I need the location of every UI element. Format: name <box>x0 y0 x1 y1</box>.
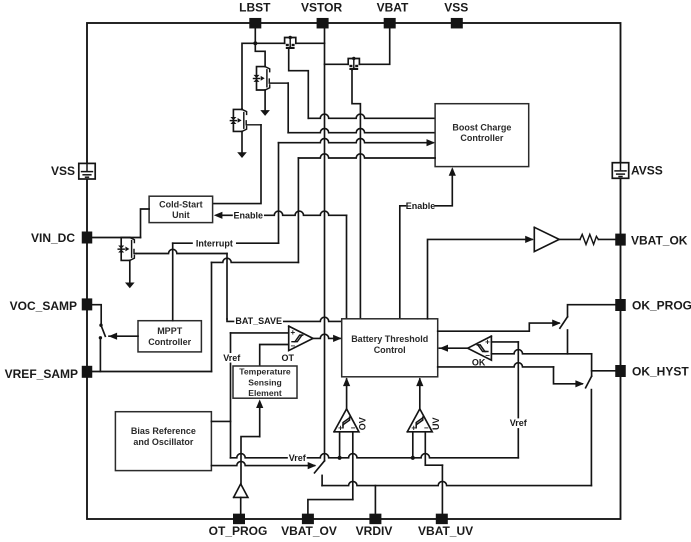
wire UV output to BTC <box>419 379 421 409</box>
wire M2 gate to BCC (input 2) <box>287 83 289 133</box>
svg-text:and Oscillator: and Oscillator <box>133 437 194 447</box>
op-amp U8 OT_PROG buffer (open triangle) <box>234 484 248 498</box>
wire OV + input <box>339 432 341 458</box>
pin OK_PROG <box>615 299 626 311</box>
wire VOC_SAMP to switch <box>92 305 101 324</box>
wire OK_HYST pin <box>592 370 616 372</box>
wire VRDIV pin <box>374 486 376 514</box>
svg-text:Controller: Controller <box>148 337 191 347</box>
svg-text:Control: Control <box>374 345 406 355</box>
pin VSS (top) <box>451 18 463 29</box>
wire M2 source to ground <box>264 90 266 111</box>
svg-text:Sensing: Sensing <box>248 377 281 387</box>
wire Enable (BTC to Cold-Start) <box>222 214 232 216</box>
svg-text:VIN_DC: VIN_DC <box>31 231 75 245</box>
pin VRDIV <box>369 514 381 525</box>
wire OK_PROG pin to switch <box>568 305 616 317</box>
arrowhead into Temperature block <box>256 399 263 408</box>
pin OT_PROG <box>233 514 245 525</box>
svg-text:Enable: Enable <box>234 210 264 220</box>
svg-text:Vref: Vref <box>223 353 241 363</box>
svg-text:VBAT: VBAT <box>377 1 409 15</box>
wire M3 gate to Cold-Start Unit <box>213 125 261 204</box>
pin LBST <box>249 18 261 29</box>
junction dot S1 bottom <box>99 336 102 339</box>
ground arrow at M5 <box>125 283 135 289</box>
wire MPPT sample control <box>109 335 138 337</box>
wire OK output to BTC <box>439 347 467 349</box>
wire LBST to M2 drain <box>255 43 265 66</box>
wire Vref vertical (left) <box>230 333 232 352</box>
OK hysteresis glyph <box>477 345 488 352</box>
op-amp U11 OV comparator (points up) <box>334 409 359 432</box>
svg-text:Boost Charge: Boost Charge <box>452 122 511 132</box>
chip outline border <box>87 23 621 519</box>
wire OK + input (Vref) <box>491 341 518 343</box>
wire OT_PROG to Temperature block <box>241 437 260 484</box>
wire Enable (BTC to BCC) <box>400 206 406 319</box>
wire M3 drain feed <box>241 108 243 110</box>
wire OT - input (temp) <box>260 345 289 367</box>
switch S3 OK_HYST (blade) <box>586 376 592 388</box>
arrowhead S3 control <box>575 380 584 387</box>
wire VBAT pin drop <box>359 29 389 65</box>
svg-text:Bias Reference: Bias Reference <box>131 426 196 436</box>
arrowhead UV into BTC <box>416 378 423 387</box>
wire M3 source to ground <box>241 131 243 152</box>
wire LBST pin drop <box>254 29 256 44</box>
svg-text:VBAT_OK: VBAT_OK <box>631 233 688 247</box>
svg-text:VSS: VSS <box>444 1 468 15</box>
label UV (rotated) <box>431 418 441 431</box>
arrowhead OK into BTC <box>439 345 448 352</box>
wire LBST left branch <box>242 43 255 109</box>
wire BTC to S2 control <box>438 323 559 331</box>
OT hysteresis glyph <box>292 335 303 342</box>
wire VSTOR rail <box>324 29 326 461</box>
block U10 Bias Reference and Oscillator <box>115 412 211 471</box>
pin VBAT_OV <box>302 514 314 525</box>
arrowhead into VBAT_OK buffer <box>525 236 534 243</box>
pin VBAT_UV <box>436 514 448 525</box>
UV hysteresis glyph <box>416 417 423 428</box>
pin VSTOR <box>317 18 329 29</box>
svg-text:OK_HYST: OK_HYST <box>632 364 689 378</box>
switch S4 VSTOR divider (blade) <box>315 461 325 473</box>
switch S2 OK_PROG (blade) <box>560 317 568 328</box>
svg-text:VRDIV: VRDIV <box>356 524 393 538</box>
svg-text:VSTOR: VSTOR <box>301 1 342 15</box>
svg-text:Temperature: Temperature <box>239 367 291 377</box>
wire M4 gate to BTC (rail) <box>352 70 360 319</box>
ground arrow at M3 <box>237 152 247 158</box>
wire OT_PROG pin to buffer <box>240 497 242 513</box>
svg-text:−: − <box>290 341 295 350</box>
wire OV - input (VBAT_OV) <box>352 432 354 500</box>
svg-text:Unit: Unit <box>172 210 190 220</box>
transistor M2 (low-side NMOS) <box>257 67 266 90</box>
wire Interrupt (MPPT to BCC) <box>172 243 174 321</box>
wire VBAT_OK feed (BTC rail up) <box>428 239 533 318</box>
op-amp U5 VBAT_OK buffer <box>534 227 559 251</box>
svg-text:MPPT: MPPT <box>157 326 183 336</box>
ground symbol AVSS (right border) <box>612 163 628 179</box>
pin VIN_DC <box>82 232 93 244</box>
op-amp U9 OK comparator (points left) <box>468 336 492 360</box>
arrowhead Enable into Cold-Start <box>214 212 223 219</box>
transistor M5 (VIN_DC NMOS) <box>121 238 130 261</box>
svg-text:OV: OV <box>358 417 368 430</box>
pin VBAT_OK <box>615 234 626 246</box>
arrowhead S4 control <box>308 462 317 469</box>
svg-text:OT_PROG: OT_PROG <box>209 524 268 538</box>
junction dot Vref-OV+ <box>338 456 342 460</box>
ground symbol VSS (left border) <box>79 163 95 179</box>
wire OT + input (Vref) <box>231 332 289 334</box>
arrowhead S2 control <box>552 320 561 327</box>
pin VOC_SAMP <box>82 298 93 310</box>
wire M1 to VSTOR rail <box>296 42 325 44</box>
wire S2 bottom to OK- net <box>567 330 569 354</box>
wire VREF_SAMP to BCC (input 4) <box>211 262 213 371</box>
svg-text:VBAT_OV: VBAT_OV <box>281 524 337 538</box>
wire OK - input (hysteresis feedback) <box>491 350 591 354</box>
wire VSTOR rail to M4 <box>325 63 349 65</box>
pin VREF_SAMP <box>82 366 93 378</box>
wire M5 source to ground <box>129 260 131 283</box>
wire buffer to resistor <box>559 238 580 240</box>
wire Vref horizontal <box>231 454 288 458</box>
wire VREF_SAMP <box>92 371 211 373</box>
block U1 Boost Charge Controller <box>435 104 529 167</box>
svg-text:Enable: Enable <box>406 201 436 211</box>
svg-text:BAT_SAVE: BAT_SAVE <box>235 316 282 326</box>
svg-text:Battery Threshold: Battery Threshold <box>351 334 428 344</box>
wire S4 bottom to divider net <box>321 475 323 485</box>
switch S1 VOC sample (blade) <box>101 325 105 336</box>
svg-text:+: + <box>290 328 295 337</box>
transistor M3 (cold-start rectifier NMOS) <box>233 109 242 131</box>
wire VIN_DC <box>92 237 140 239</box>
wire resistor to VBAT_OK pin <box>598 238 615 240</box>
svg-text:OT: OT <box>282 353 295 363</box>
wire M5 gate / BAT_SAVE net <box>136 249 227 253</box>
svg-text:OK_PROG: OK_PROG <box>632 298 691 312</box>
svg-text:VREF_SAMP: VREF_SAMP <box>5 367 78 381</box>
wire S1 to VREF_SAMP net <box>99 339 101 371</box>
wire UV - input (VBAT_UV) <box>424 432 426 465</box>
junction dot S1 top <box>99 324 102 327</box>
wire Vref vertical (right) <box>517 342 519 418</box>
pin OK_HYST <box>615 365 626 377</box>
wire OK- net corner to S3 <box>591 354 593 376</box>
junction dot LBST node <box>253 41 257 45</box>
arrowhead at VOC sample switch <box>109 333 118 340</box>
arrowhead OV into BTC <box>343 378 350 387</box>
wire S3 bottom to divider net <box>590 390 592 486</box>
svg-text:UV: UV <box>431 418 441 431</box>
pin VBAT <box>384 18 396 29</box>
wire Bias to Vref net <box>211 420 230 422</box>
wire LBST to M1 <box>255 42 284 44</box>
wire Cold-Start to VIN_DC <box>141 209 150 238</box>
arrowhead Enable into BCC <box>449 167 456 176</box>
svg-text:LBST: LBST <box>239 1 271 15</box>
block U3 MPPT Controller <box>138 321 201 352</box>
wire M1 gate to BCC (input 1) <box>289 49 309 119</box>
svg-text:+: + <box>485 338 490 347</box>
op-amp U12 UV comparator (points up) <box>407 409 432 432</box>
wire divider net (bottom horizontal) <box>322 481 591 485</box>
op-amp U6 OT comparator <box>289 326 313 351</box>
svg-text:AVSS: AVSS <box>631 164 663 178</box>
block U2 Cold-Start Unit <box>149 196 213 222</box>
OV hysteresis glyph <box>343 417 350 428</box>
svg-text:VOC_SAMP: VOC_SAMP <box>10 299 77 313</box>
svg-text:Vref: Vref <box>289 453 307 463</box>
svg-text:VBAT_UV: VBAT_UV <box>418 524 473 538</box>
arrowhead interrupt into BCC <box>427 139 436 146</box>
wire UV + input <box>412 432 414 458</box>
resistor R1 <box>580 234 598 244</box>
arrowhead OT into BTC <box>333 335 342 342</box>
svg-text:Interrupt: Interrupt <box>196 238 233 248</box>
ground arrow at M2 <box>260 110 270 116</box>
block U4 Battery Threshold Control <box>342 319 438 377</box>
wire Bias to S4 control <box>211 461 314 465</box>
junction dot Vref-UV+ <box>411 456 415 460</box>
label OV (rotated) <box>358 417 368 430</box>
block U7 Temperature Sensing Element <box>233 366 297 398</box>
transistor M4 (VSTOR-VBAT PMOS) <box>348 59 359 65</box>
svg-text:−: − <box>485 351 490 360</box>
wire OT output to BTC <box>313 334 340 338</box>
svg-text:Controller: Controller <box>460 133 503 143</box>
svg-text:VSS: VSS <box>51 164 75 178</box>
svg-text:Vref: Vref <box>510 418 528 428</box>
svg-text:Cold-Start: Cold-Start <box>159 199 203 209</box>
wire BTC to S3 control <box>438 363 554 367</box>
svg-text:Element: Element <box>248 388 282 398</box>
transistor M1 (LBST-VSTOR PMOS) <box>285 38 296 44</box>
wire OV output to BTC <box>346 379 348 409</box>
